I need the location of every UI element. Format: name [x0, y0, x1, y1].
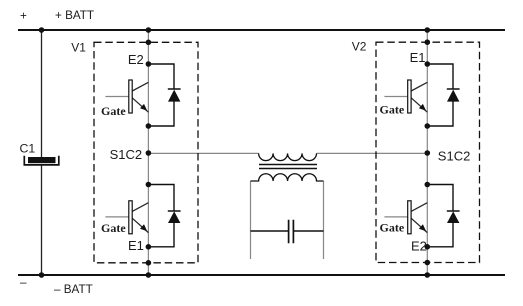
svg-text:Gate: Gate	[380, 221, 405, 235]
svg-text:E2: E2	[411, 239, 427, 254]
svg-text:–: –	[20, 276, 27, 289]
svg-text:S1C2: S1C2	[438, 148, 471, 163]
svg-text:E2: E2	[128, 52, 144, 67]
svg-text:V2: V2	[352, 40, 367, 54]
svg-text:C1: C1	[20, 142, 36, 156]
svg-text:Gate: Gate	[101, 221, 126, 235]
svg-text:V1: V1	[71, 40, 86, 54]
svg-text:Gate: Gate	[380, 102, 405, 116]
svg-text:+: +	[20, 10, 27, 23]
svg-text:– BATT: – BATT	[54, 283, 93, 296]
svg-text:S1C2: S1C2	[110, 147, 143, 162]
svg-text:+ BATT: + BATT	[55, 9, 94, 22]
svg-text:Gate: Gate	[101, 104, 126, 118]
svg-text:E1: E1	[410, 50, 426, 65]
svg-text:E1: E1	[128, 238, 144, 253]
